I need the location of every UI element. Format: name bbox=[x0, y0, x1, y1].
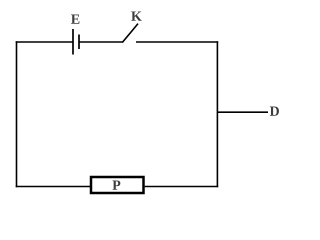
label K bbox=[131, 12, 142, 21]
wire tap to terminal D bbox=[217, 111, 268, 113]
resistor P box bbox=[91, 177, 144, 193]
wire right vertical bbox=[216, 41, 218, 187]
wire bottom-left segment (corner to resistor) bbox=[16, 186, 90, 188]
battery E long plate bbox=[72, 29, 74, 55]
wire resistor to bottom-right corner bbox=[145, 186, 219, 188]
label P bbox=[112, 181, 120, 190]
label D bbox=[270, 107, 279, 116]
wire battery to switch bbox=[79, 41, 123, 43]
battery E short plate bbox=[78, 35, 80, 50]
wire top-left segment (corner to battery) bbox=[16, 41, 73, 43]
switch K blade bbox=[122, 24, 138, 43]
wire switch to top-right corner bbox=[136, 41, 218, 43]
label E bbox=[71, 15, 79, 24]
wire left vertical bbox=[16, 41, 18, 187]
